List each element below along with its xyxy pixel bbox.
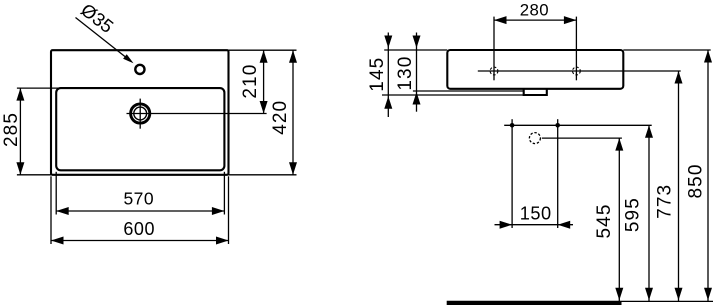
drain centerline horizontal: [127, 113, 267, 115]
dim 210 line: [263, 50, 265, 113]
waste hole (dashed): [529, 133, 540, 144]
svg-text:130: 130: [395, 56, 416, 91]
dim 595 line: [648, 125, 650, 301]
dim 150 line: [495, 224, 574, 226]
supply line left: [511, 119, 513, 228]
svg-text:280: 280: [520, 1, 549, 20]
basin outer rim (top view): [51, 50, 229, 175]
dim 280 extension right: [575, 17, 577, 81]
top extension line left: [384, 49, 447, 51]
svg-text:420: 420: [270, 100, 291, 135]
fixing holes centerline: [478, 70, 681, 72]
supply line right: [557, 119, 559, 228]
dim 570 extension left: [55, 172, 57, 215]
dim 420 extension bottom: [229, 174, 297, 176]
dim 285 extension bottom: [17, 174, 51, 176]
fixing hole left: [490, 67, 498, 75]
dim 600 line: [51, 240, 229, 242]
fixing tab under basin: [524, 89, 547, 95]
svg-text:570: 570: [123, 188, 154, 208]
svg-text:145: 145: [367, 57, 388, 92]
drain inner circle: [134, 107, 147, 120]
top extension line to 850: [623, 49, 710, 51]
svg-text:Ø35: Ø35: [77, 0, 117, 37]
supply level line 595: [504, 124, 652, 126]
svg-text:850: 850: [686, 163, 707, 198]
junction dot right: [555, 123, 560, 128]
dim 130 extension bottom: [413, 90, 524, 92]
svg-text:773: 773: [655, 184, 676, 219]
drain crosshair vertical: [139, 99, 141, 129]
dim 600 extension left: [50, 176, 52, 244]
svg-text:285: 285: [1, 112, 22, 147]
dim 280 line: [494, 19, 576, 21]
basin front outline: [447, 50, 623, 89]
dim 280 extension left: [493, 17, 495, 81]
dim 420 line: [292, 50, 294, 175]
dim 130 line: [416, 33, 418, 112]
dim 773 line: [678, 71, 680, 301]
dim 545 line: [618, 138, 620, 301]
dim 850 line: [707, 50, 709, 301]
drain outer circle: [131, 104, 150, 123]
waste level line 545: [542, 137, 622, 139]
basin inner bowl rim: [56, 88, 224, 170]
junction dot left: [510, 123, 515, 128]
svg-text:600: 600: [123, 219, 155, 239]
dim 600 extension right: [228, 176, 230, 244]
dim 145 line: [387, 33, 389, 118]
svg-text:210: 210: [240, 64, 261, 99]
svg-text:545: 545: [594, 203, 615, 238]
dim 285 line: [19, 88, 21, 175]
dim 285 extension top: [17, 87, 63, 89]
dim 570 line: [56, 210, 224, 212]
fixing hole right: [573, 67, 581, 75]
top extension line right: [229, 49, 297, 51]
leader line to faucet hole: [76, 18, 130, 60]
svg-text:150: 150: [520, 203, 552, 223]
svg-text:595: 595: [623, 197, 644, 232]
dim 145 extension bottom: [382, 94, 525, 96]
faucet hole: [135, 65, 144, 74]
dim 570 extension right: [223, 172, 225, 215]
floor line: [447, 301, 622, 305]
